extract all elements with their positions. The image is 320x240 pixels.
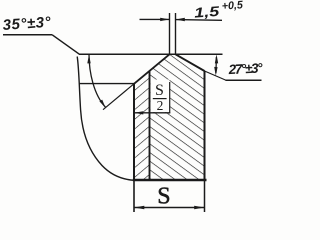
arc arrow at slope end xyxy=(99,100,105,108)
bowl arc (blade outline) xyxy=(77,57,134,181)
svg-text:27°±3°: 27°±3° xyxy=(227,60,263,77)
slot extension line right xyxy=(175,13,177,54)
slot extension line left xyxy=(169,13,171,54)
arrow outward right xyxy=(194,206,204,210)
label 1,5+0,5 xyxy=(193,0,244,21)
body bottom edge xyxy=(133,179,207,181)
S dimension line xyxy=(134,207,205,209)
body outline: left slope xyxy=(134,54,170,84)
white box around S/2 label xyxy=(151,80,170,113)
27deg angle double arrow xyxy=(215,57,218,73)
S dimension extension line left xyxy=(133,180,135,212)
dimension line 1.5 left part xyxy=(140,18,170,20)
svg-text:2: 2 xyxy=(157,98,164,113)
svg-text:S: S xyxy=(157,183,170,209)
leader underline 35deg xyxy=(3,34,52,36)
right slope extension line xyxy=(205,71,227,80)
arrow left-pointing at slot right line xyxy=(176,18,185,21)
label 27deg underline xyxy=(226,79,262,81)
arc arrow up at line A xyxy=(87,54,90,63)
inner boundary line xyxy=(149,71,151,180)
section hatch: left strip region xyxy=(134,71,150,180)
label 27deg xyxy=(227,60,263,77)
svg-text:1,5: 1,5 xyxy=(194,3,220,21)
svg-text:S: S xyxy=(155,82,164,99)
dimension line 1.5 right part, doubles as text underline xyxy=(176,19,223,22)
label 35deg xyxy=(2,14,52,34)
section hatch: main body region xyxy=(150,54,205,179)
35deg angle arc xyxy=(89,54,106,107)
left slope extension line xyxy=(103,84,134,110)
arrow left at body edge xyxy=(134,111,143,114)
S dimension extension line right xyxy=(204,180,206,212)
leader diagonal to line A xyxy=(52,35,80,55)
body left edge xyxy=(133,83,135,180)
horizontal extension line C at corner level xyxy=(79,83,134,85)
arrow right-pointing at slot left line xyxy=(160,18,169,21)
horizontal reference line A at tip level xyxy=(79,53,223,55)
body outline: right slope xyxy=(176,54,205,71)
svg-text:+0,5: +0,5 xyxy=(221,0,244,13)
svg-text:35°±3°: 35°±3° xyxy=(2,14,52,34)
S/2 dimension line xyxy=(134,112,170,114)
arrow outward left xyxy=(134,206,144,210)
centerline tick right of S/2 box xyxy=(169,82,171,113)
body right edge xyxy=(204,71,206,180)
